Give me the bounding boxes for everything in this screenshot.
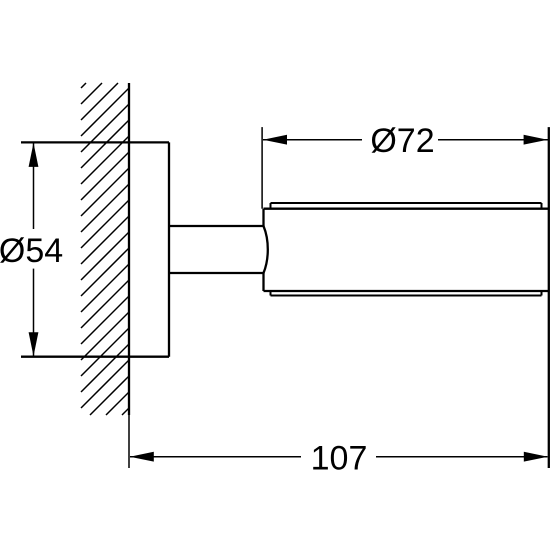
svg-text:Ø72: Ø72 xyxy=(370,122,434,160)
svg-text:Ø54: Ø54 xyxy=(0,232,63,270)
svg-text:107: 107 xyxy=(311,440,368,478)
